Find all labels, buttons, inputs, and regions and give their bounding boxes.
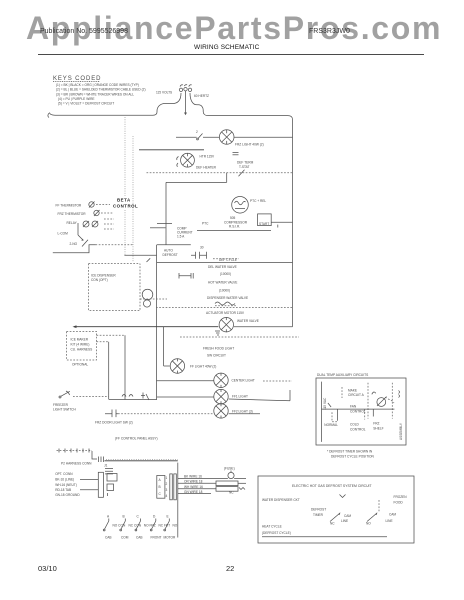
svg-text:DUAL TEMP AUXILIARY CIRCUITS: DUAL TEMP AUXILIARY CIRCUITS xyxy=(317,373,368,377)
page title xyxy=(194,44,259,51)
wire L1 left lead to harness loop xyxy=(48,93,181,118)
kit wire 2 xyxy=(97,342,109,400)
svg-text:(5) = V | VIOLET = DEFROST C: (5) = V | VIOLET = DEFROST CIRCUIT xyxy=(58,102,114,106)
svg-text:B: B xyxy=(123,514,125,518)
svg-text:COLD: COLD xyxy=(350,422,360,426)
svg-text:L-COM: L-COM xyxy=(58,231,69,235)
svg-text:B: B xyxy=(159,485,161,489)
svg-text:FRONT: FRONT xyxy=(151,535,162,539)
freezer light switch xyxy=(53,391,109,411)
watermark xyxy=(26,10,442,47)
aux drop mid xyxy=(364,409,366,419)
svg-text:BETA: BETA xyxy=(117,198,131,203)
svg-text:DEFROST CYCLE POSITION: DEFROST CYCLE POSITION xyxy=(331,454,375,458)
aux switch tick xyxy=(328,403,331,407)
svg-text:FF2 LIGHT (3): FF2 LIGHT (3) xyxy=(232,409,253,413)
svg-text:(4) = PU | PURPLE WIRE: (4) = PU | PURPLE WIRE xyxy=(58,97,95,101)
harness row 4 xyxy=(178,490,234,495)
water valve label 1 xyxy=(208,265,237,276)
svg-text:NORMAL: NORMAL xyxy=(324,423,338,427)
svg-text:FF LIGHT 40W (2): FF LIGHT 40W (2) xyxy=(190,365,216,369)
harness row 3 xyxy=(178,485,245,491)
svg-text:MAKE: MAKE xyxy=(348,389,357,393)
svg-text:CENTER LIGHT: CENTER LIGHT xyxy=(232,379,255,383)
switch SW3 xyxy=(135,514,156,539)
branch to lower circuits xyxy=(157,236,191,400)
harness drop wire xyxy=(92,451,97,459)
harness row 2 xyxy=(178,480,246,486)
svg-text:PTC: PTC xyxy=(202,221,209,225)
control output wire xyxy=(124,254,156,256)
start device box xyxy=(258,214,293,228)
svg-text:FAN: FAN xyxy=(350,405,357,409)
svg-text:KIT (4 WIRE): KIT (4 WIRE) xyxy=(71,343,90,347)
svg-text:A: A xyxy=(107,514,110,518)
svg-text:SW CIRCUIT: SW CIRCUIT xyxy=(207,354,226,358)
compressor labels xyxy=(224,216,248,229)
relay contact 2-NO xyxy=(70,240,89,247)
power cord plug P1 xyxy=(156,85,209,98)
defrost bus dashed wire xyxy=(147,170,293,177)
aux footnote xyxy=(327,449,375,458)
ice dispenser dashed housing xyxy=(89,264,141,311)
defrost heater xyxy=(177,153,217,169)
FF light lamp xyxy=(164,327,217,374)
defrost switch tick xyxy=(147,258,151,262)
svg-text:HOT WATER VALVE: HOT WATER VALVE xyxy=(208,281,237,285)
svg-text:115 VAC: 115 VAC xyxy=(323,397,327,410)
svg-text:PTC + REL: PTC + REL xyxy=(250,199,266,203)
pin label 2 xyxy=(55,478,98,482)
connector shell xyxy=(98,472,103,497)
svg-text:ASSEMBLY: ASSEMBLY xyxy=(399,422,403,440)
control header block xyxy=(157,476,165,499)
header publication number xyxy=(40,28,128,35)
svg-text:FRZ DOOR LIGHT SW (2): FRZ DOOR LIGHT SW (2) xyxy=(95,421,133,425)
svg-text:J1: J1 xyxy=(104,464,108,468)
defrost heater feed wire xyxy=(139,149,204,151)
aux fan control label xyxy=(350,405,366,414)
svg-text:FRESH FOOD LIGHT: FRESH FOOD LIGHT xyxy=(203,347,234,351)
control board label xyxy=(113,198,138,209)
aux label fan speed xyxy=(348,389,365,398)
svg-text:* DEFROST TIMER SHOWN IN: * DEFROST TIMER SHOWN IN xyxy=(327,449,373,453)
svg-text:CIRCUIT A: CIRCUIT A xyxy=(348,393,365,397)
svg-text:HTR 115V: HTR 115V xyxy=(200,155,216,159)
svg-text:2: 2 xyxy=(196,130,198,134)
wire from relay to control xyxy=(53,245,133,253)
control board ribbon wire 2 xyxy=(132,136,134,262)
svg-text:WATER DISPENSER CKT: WATER DISPENSER CKT xyxy=(262,498,300,502)
footer date xyxy=(38,564,57,573)
freezer light lamp xyxy=(203,130,293,147)
aux divider 1 xyxy=(367,383,369,419)
aux connector arcs xyxy=(399,391,400,398)
svg-text:NO: NO xyxy=(366,521,371,525)
svg-text:BK WIRE 16: BK WIRE 16 xyxy=(184,474,202,478)
header model number xyxy=(309,28,350,35)
defrost timer contact B xyxy=(179,273,193,279)
svg-text:60 HERTZ: 60 HERTZ xyxy=(194,94,209,98)
svg-text:LINE: LINE xyxy=(386,519,393,523)
detail right label xyxy=(394,495,408,508)
dashed row A xyxy=(140,298,167,300)
svg-text:NO: NO xyxy=(173,523,178,527)
water valve lamp xyxy=(215,317,293,335)
svg-text:OPTIONAL: OPTIONAL xyxy=(72,363,88,367)
switch SW2 xyxy=(120,514,142,539)
svg-text:CONTROL: CONTROL xyxy=(350,410,366,414)
aux inner rail xyxy=(321,382,323,442)
center light lamp xyxy=(157,373,293,388)
svg-text:2-NO: 2-NO xyxy=(70,242,78,246)
switch SW4 xyxy=(150,514,170,539)
detail switch 2 xyxy=(366,500,396,525)
svg-text:DEFROST: DEFROST xyxy=(163,253,178,257)
svg-text:1: 1 xyxy=(166,476,168,480)
svg-text:115 VOLTS: 115 VOLTS xyxy=(156,91,172,95)
svg-text:GN WIRE 18: GN WIRE 18 xyxy=(184,490,203,494)
FF thermistor xyxy=(56,202,111,208)
fuse F1 xyxy=(224,466,235,478)
svg-text:ACTUATOR MOTOR 115V: ACTUATOR MOTOR 115V xyxy=(206,311,245,315)
svg-text:CU. HARNESS: CU. HARNESS xyxy=(71,348,93,352)
svg-text:T-STAT: T-STAT xyxy=(239,165,250,169)
aux drop wires xyxy=(332,409,373,422)
svg-text:DISPENSER WATER VALVE: DISPENSER WATER VALVE xyxy=(207,296,248,300)
svg-text:(FF CONTROL PANEL ASSY): (FF CONTROL PANEL ASSY) xyxy=(115,437,158,441)
aux relay coil xyxy=(372,392,394,406)
compressor motor M1 xyxy=(232,197,267,214)
switch SW5 xyxy=(164,514,178,539)
svg-text:DEL WATER VALVE: DEL WATER VALVE xyxy=(208,265,237,269)
aux main line xyxy=(322,408,395,410)
freezer door switch xyxy=(176,130,203,140)
svg-text:(DEFROST CYCLE): (DEFROST CYCLE) xyxy=(262,531,291,535)
relay contact L-COM xyxy=(58,231,84,241)
svg-text:R.S.I.R.: R.S.I.R. xyxy=(229,225,240,229)
svg-text:DEF HEATER: DEF HEATER xyxy=(196,165,217,169)
defrost timer contact xyxy=(163,245,240,262)
svg-text:CON (OPT): CON (OPT) xyxy=(91,278,108,282)
detail timer label xyxy=(311,508,326,518)
compressor current note xyxy=(177,227,193,239)
svg-text:FF1 LIGHT: FF1 LIGHT xyxy=(232,395,248,399)
run capacitor xyxy=(150,221,209,236)
svg-text:CAB: CAB xyxy=(136,535,143,539)
kit wire 1 xyxy=(97,335,126,399)
svg-text:(10000): (10000) xyxy=(219,289,230,293)
ground stem from plug xyxy=(184,91,187,115)
footer page number xyxy=(226,564,234,573)
relay K1 xyxy=(67,219,115,235)
svg-text:HEAT CYCLE: HEAT CYCLE xyxy=(262,525,282,529)
terminal block 2 xyxy=(107,484,114,496)
svg-text:C: C xyxy=(137,514,140,518)
svg-text:NC FRT: NC FRT xyxy=(159,523,171,527)
connector top dotted edge xyxy=(106,459,178,461)
water valve label 2 xyxy=(208,281,237,293)
svg-text:D: D xyxy=(153,514,156,518)
svg-text:KEYS CODED: KEYS CODED xyxy=(53,76,101,82)
svg-text:NC CON: NC CON xyxy=(129,523,142,527)
fresh food note xyxy=(203,347,234,358)
dispenser water valve solenoid xyxy=(206,296,248,315)
defrost termination thermostat xyxy=(233,153,254,169)
svg-text:2: 2 xyxy=(166,482,168,486)
detail switch 1 xyxy=(330,512,351,525)
aux divider 3 xyxy=(341,387,343,398)
harness row 1 xyxy=(178,474,246,478)
svg-text:(3) = BR | BROWN = WHITE TRA: (3) = BR | BROWN = WHITE TRACER WIRES ON… xyxy=(56,92,134,96)
lower feed wire xyxy=(157,262,293,264)
dashed row B xyxy=(156,307,293,309)
terminal block 1 xyxy=(107,474,117,482)
svg-text:FF THERMISTOR: FF THERMISTOR xyxy=(56,203,82,207)
svg-text:GN-18 GROUND: GN-18 GROUND xyxy=(55,493,80,497)
svg-text:C: C xyxy=(159,492,162,496)
svg-text:OR WIRE 18: OR WIRE 18 xyxy=(184,480,203,484)
compressor bottom wire xyxy=(197,230,271,232)
detail baseline xyxy=(262,536,387,538)
svg-text:DEF CYCLE: DEF CYCLE xyxy=(219,258,237,262)
aux label cold ctrl xyxy=(350,422,366,431)
bottom bus xyxy=(177,463,179,538)
svg-text:(2) = BL | BLUE = SHIELDED T: (2) = BL | BLUE = SHIELDED THERMISTOR CA… xyxy=(56,88,146,92)
right bus N xyxy=(292,120,294,327)
svg-text:START: START xyxy=(259,222,269,226)
svg-text:NC: NC xyxy=(330,521,335,525)
legend KEY CODES xyxy=(53,76,146,106)
switch SW1 xyxy=(103,514,126,539)
FF1 light lamp xyxy=(157,389,290,404)
svg-text:RD-18 TAB: RD-18 TAB xyxy=(55,488,71,492)
wire to compressor branch xyxy=(166,173,227,224)
wire L2 right lead across top xyxy=(190,93,293,120)
svg-text:FRZ LIGHT 40W (2): FRZ LIGHT 40W (2) xyxy=(235,143,264,147)
svg-text:SHELF: SHELF xyxy=(373,427,383,431)
svg-text:FRZ THERMISTOR: FRZ THERMISTOR xyxy=(58,212,87,216)
svg-text:FRZ: FRZ xyxy=(373,421,379,425)
svg-text:3: 3 xyxy=(166,488,168,492)
svg-text:WH-16 (NEUT): WH-16 (NEUT) xyxy=(55,483,77,487)
svg-text:(10000): (10000) xyxy=(220,272,231,276)
svg-text:CONTROL: CONTROL xyxy=(113,204,138,209)
svg-text:FOOD: FOOD xyxy=(394,501,404,505)
defrost detail box xyxy=(258,476,414,543)
aux circuits box xyxy=(316,378,406,445)
svg-text:TIMER: TIMER xyxy=(313,513,324,517)
svg-text:30: 30 xyxy=(200,245,204,249)
dashed row C xyxy=(180,336,299,338)
svg-text:RELAY: RELAY xyxy=(67,221,78,225)
svg-text:LIGHT SWITCH: LIGHT SWITCH xyxy=(53,407,76,411)
FF2 light lamp xyxy=(105,403,260,418)
splice symbol xyxy=(104,464,113,474)
aux label frz shelf xyxy=(373,421,383,430)
pin label 4 xyxy=(55,488,98,492)
svg-text:4: 4 xyxy=(166,494,168,498)
svg-text:E: E xyxy=(167,514,169,518)
svg-text:MOTOR: MOTOR xyxy=(164,535,177,539)
svg-text:ICE MAKER: ICE MAKER xyxy=(71,338,89,342)
svg-text:OPT. CONN: OPT. CONN xyxy=(55,472,73,476)
svg-text:COM: COM xyxy=(121,535,129,539)
svg-text:CAM: CAM xyxy=(344,514,351,518)
svg-text:P2 HARNESS CONN: P2 HARNESS CONN xyxy=(61,461,92,465)
svg-text:WATER VALVE: WATER VALVE xyxy=(237,319,259,323)
aux divider 2 xyxy=(391,383,393,419)
control board ribbon wire 1 xyxy=(124,117,126,196)
svg-text:ELECTRIC HOT GAS DEFROST SYSTE: ELECTRIC HOT GAS DEFROST SYSTEM CIRCUIT xyxy=(292,484,372,488)
svg-text:NC: NC xyxy=(229,491,234,495)
board edge connector xyxy=(166,474,177,500)
FRZ thermistor xyxy=(58,210,114,216)
ice maker feed arrow xyxy=(73,325,219,328)
svg-text:CAM: CAM xyxy=(389,513,396,517)
svg-text:1.5 A: 1.5 A xyxy=(177,235,185,239)
header rule xyxy=(38,54,424,55)
svg-text:CAB: CAB xyxy=(105,535,112,539)
dispenser motor xyxy=(142,289,153,307)
svg-text:LINE: LINE xyxy=(341,519,348,523)
svg-text:(FUSE): (FUSE) xyxy=(224,466,235,470)
svg-text:DEFROST: DEFROST xyxy=(311,508,326,512)
svg-text:(1) = BK | BLACK = ORG | ORA: (1) = BK | BLACK = ORG | ORANGE CODE WIR… xyxy=(56,83,139,87)
door switch box xyxy=(109,382,215,401)
detail bottom labels xyxy=(262,525,291,536)
ice maker kit box xyxy=(67,332,97,367)
svg-text:A: A xyxy=(159,478,162,482)
detail cam mark xyxy=(340,495,346,498)
connector strip teeth xyxy=(57,449,93,453)
svg-text:CONTROL: CONTROL xyxy=(350,428,366,432)
svg-text:WH WIRE 16: WH WIRE 16 xyxy=(184,485,203,489)
svg-text:BK-16 (LINE): BK-16 (LINE) xyxy=(55,478,74,482)
svg-text:FROZEN: FROZEN xyxy=(394,495,408,499)
